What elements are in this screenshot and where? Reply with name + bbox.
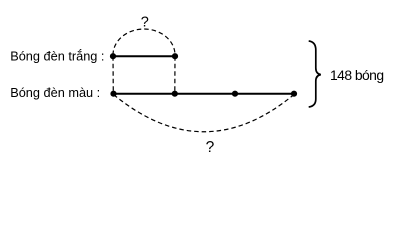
white bar end dot right bbox=[172, 53, 178, 59]
colour bar dot 3 bbox=[232, 91, 238, 97]
colour-bulb bar bbox=[114, 93, 295, 95]
dashed arc over white-bulb bar bbox=[113, 29, 175, 55]
colour bar dot 1 bbox=[110, 91, 116, 97]
svg-text:Bóng đèn màu :: Bóng đèn màu : bbox=[10, 85, 100, 100]
svg-text:Bóng đèn trắng :: Bóng đèn trắng : bbox=[10, 49, 104, 64]
curly brace bbox=[309, 41, 321, 107]
dashed connector right (between bars) bbox=[174, 56, 176, 93]
white-bulb bar bbox=[113, 55, 175, 57]
svg-text:148 bóng: 148 bóng bbox=[330, 67, 384, 83]
colour bar dot 4 bbox=[291, 91, 297, 97]
svg-text:?: ? bbox=[141, 15, 149, 31]
colour bar dot 2 bbox=[172, 91, 178, 97]
dashed arc under colour-bulb bar bbox=[114, 95, 295, 132]
white bar end dot left bbox=[110, 53, 116, 59]
dashed connector left (between bars) bbox=[112, 56, 114, 93]
svg-text:?: ? bbox=[206, 139, 215, 156]
